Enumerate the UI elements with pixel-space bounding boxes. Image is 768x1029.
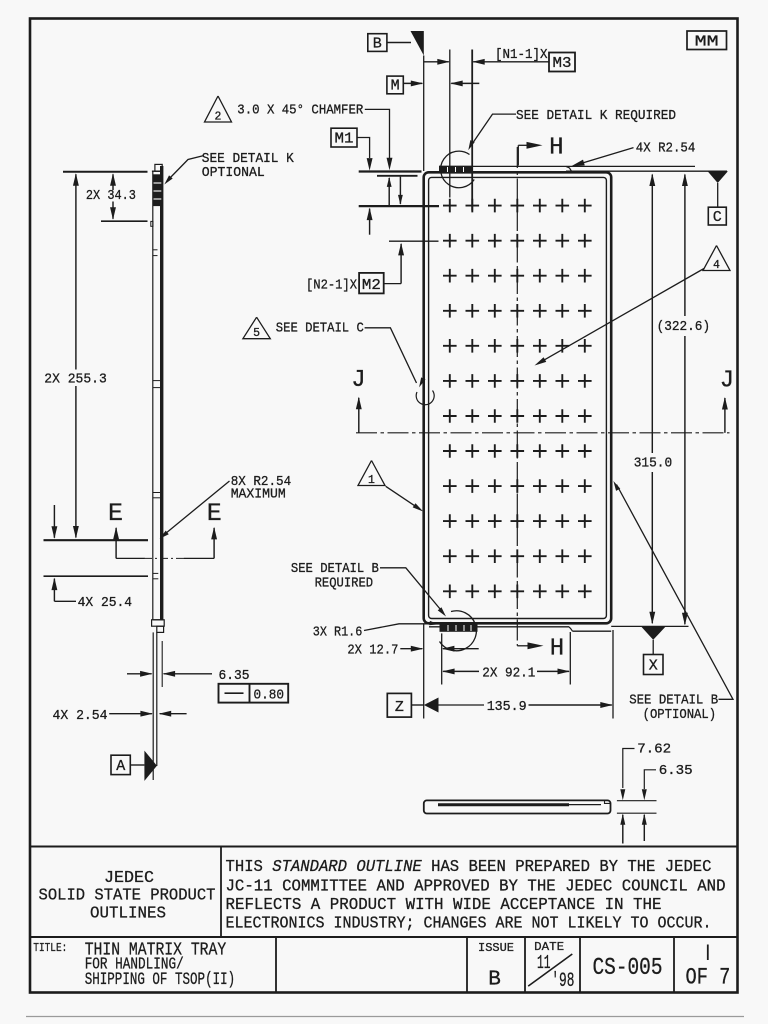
detail K circle [441,151,475,188]
units MM box [687,31,727,50]
section H bottom marker [517,645,528,647]
flag 1 leader [386,486,420,509]
side view right edge [160,166,163,620]
dim 2X 255.3 top arrow [75,174,77,369]
tray top rail step [566,166,572,171]
dim M1 box [331,128,357,147]
title block divider JEDEC cell [220,847,222,938]
straightness frame [219,684,289,703]
svg-text:H: H [549,135,563,162]
dim N1 pitch left arrow [424,61,449,63]
svg-text:M: M [391,77,400,94]
svg-text:135.9: 135.9 [487,699,527,715]
dim 6.35 edge lower arrow [643,815,645,841]
dim M1 lower arrow [369,209,371,235]
page bottom scan line [26,1016,744,1018]
see detail B optional leader [617,485,734,700]
svg-text:REQUIRED: REQUIRED [315,576,374,592]
dim 6.35 edge leader [644,770,656,789]
extension line side E level [44,539,149,541]
dim 4X 25.4 upper arrow [53,505,55,538]
svg-text:2X 255.3: 2X 255.3 [44,372,107,388]
dim 2X 12.7 right arrow [443,648,479,650]
dim 315.0 line lower [651,472,653,623]
edge view inner recess [438,803,569,806]
side view foot [152,620,165,626]
dim (322.6) line lower [684,336,686,624]
sheet number 1 [707,945,709,961]
svg-text:1: 1 [368,474,375,487]
extension line tray inner top edge [377,175,418,177]
svg-text:B: B [373,35,382,52]
title block divider title cell [275,937,277,993]
svg-text:(OPTIONAL): (OPTIONAL) [643,707,717,723]
datum X box [644,655,664,675]
section E-E centerline [144,557,184,559]
section J right arrow [724,398,726,433]
tray bottom edge extension to X datum [611,625,688,627]
svg-text:2X 12.7: 2X 12.7 [347,643,398,659]
svg-text:0.80: 0.80 [254,687,285,703]
svg-text:C: C [713,209,722,226]
witness line tray left edge (up) [423,56,425,172]
tray bottom rail edge [429,626,569,628]
svg-text:MM: MM [695,33,719,50]
datum X stem [652,640,654,655]
dim M2 inner up arrow [388,178,390,206]
dim 6.35 side right arrow [164,673,212,675]
svg-text:[N2-1]X: [N2-1]X [306,278,357,294]
extension line tray top edge left [359,170,422,172]
svg-text:JC-11 COMMITTEE AND APPROVED B: JC-11 COMMITTEE AND APPROVED BY THE JEDE… [226,877,726,896]
svg-text:3X R1.6: 3X R1.6 [313,625,363,641]
svg-text:M3: M3 [553,55,572,72]
svg-text:SEE DETAIL K REQUIRED: SEE DETAIL K REQUIRED [516,108,676,124]
dim 3X R1.6 leader [364,624,433,631]
svg-text:'98: '98 [551,970,574,993]
witness line pocket column 2 [471,50,473,211]
svg-text:B: B [488,969,501,992]
svg-text:SEE DETAIL C: SEE DETAIL C [276,321,364,337]
side view joint d [153,572,159,574]
dim M2 box [359,273,384,294]
dim 4X R2.54 leader [575,148,634,166]
svg-text:3.0 X 45° CHAMFER: 3.0 X 45° CHAMFER [237,103,363,119]
svg-text:11: 11 [537,952,551,974]
svg-text:2X 34.3: 2X 34.3 [86,188,136,204]
dim M right arrow [451,82,479,84]
see detail C leader [365,328,417,383]
datum A leader [130,764,144,766]
extension line pocket row 1 [359,205,439,207]
witness line pocket column 1 [449,50,451,198]
dim 135.9 right arrow [529,704,612,706]
side view left edge step [151,221,153,226]
dim M2 inner down arrow [399,177,401,204]
dim 8X R2.54 leader [163,481,230,536]
title block divider CS-005 cell [579,937,581,993]
flag 4 leader [538,269,705,364]
bottom-left tab (detail B) [440,624,477,631]
dim 2X 92.1 right arrow [537,670,569,672]
svg-text:OUTLINES: OUTLINES [90,904,166,923]
svg-text:6.35: 6.35 [219,668,250,684]
tray top rail edge [439,165,695,167]
tray bottom rail step [569,627,573,631]
svg-text:SOLID STATE PRODUCT: SOLID STATE PRODUCT [39,887,216,906]
svg-text:OF 7: OF 7 [686,965,731,991]
side view lower rail left line [152,632,154,780]
datum B flag triangle [411,31,424,56]
extension line side 34.3 [101,220,148,222]
svg-text:OPTIONAL: OPTIONAL [202,165,265,181]
see detail K optional leader [168,156,205,181]
dim 4X 2.54 left arrow [109,713,152,715]
side view joint a [153,249,158,251]
svg-text:REFLECTS A PRODUCT WITH WIDE A: REFLECTS A PRODUCT WITH WIDE ACCEPTANCE … [226,896,662,915]
tray top edge extension to C datum [566,170,727,172]
svg-text:H: H [550,636,564,663]
flag triangle 1 [358,461,385,486]
dim 2X 255.3 bottom arrow [75,386,77,538]
svg-text:THIS STANDARD OUTLINE HAS BEEN: THIS STANDARD OUTLINE HAS BEEN PREPARED … [226,858,712,877]
side view foot hook [157,626,164,632]
svg-text:A: A [116,758,125,775]
edge view extension top [617,800,657,802]
dim 2X 12.7 left arrow [400,648,422,650]
dim 4X 2.54 right arrow [160,713,187,715]
section J left arrow [358,398,360,433]
edge view extension bottom [617,812,657,814]
svg-text:M2: M2 [362,277,381,294]
svg-text:7.62: 7.62 [637,742,671,758]
title block divider issue cell [466,937,468,993]
dim M3 box [549,53,575,72]
datum A flag triangle [144,751,157,781]
svg-text:315.0: 315.0 [634,456,673,472]
datum C box [708,207,726,225]
svg-text:M1: M1 [335,131,354,148]
see detail B required leader [380,568,443,613]
svg-text:4X 2.54: 4X 2.54 [53,708,108,724]
side view joint b [153,380,160,382]
svg-text:J: J [720,367,734,394]
see detail K required leader [470,114,516,147]
title block middle rule [30,936,738,938]
svg-text:MAXIMUM: MAXIMUM [231,487,286,503]
extension line pocket row 2 [389,240,439,242]
dim 4X 25.4 lower arrow [53,579,55,602]
side view top tab [155,164,162,171]
datum M box [387,76,403,94]
side view joint c [153,492,160,494]
vertical centerline [516,147,518,646]
datum C flag triangle [708,171,728,183]
tray inner outline [429,177,607,618]
witness line 6.35 right [161,641,163,687]
datum Z box [387,693,411,717]
svg-text:J: J [351,367,365,394]
svg-text:2: 2 [215,111,222,124]
extension line side top [63,171,148,173]
svg-text:E: E [108,499,123,528]
datum Z flag arrow [424,698,439,713]
detail C arc [416,391,434,405]
tray outer outline [424,172,612,623]
datum A box [111,755,130,774]
section E right arrow [213,528,215,559]
datum X flag triangle [641,626,666,640]
title block divider sheet cell [673,937,675,993]
svg-text:2X 92.1: 2X 92.1 [482,666,535,682]
svg-text:X: X [649,658,658,675]
flag triangle 4 [703,246,730,271]
edge view outline [424,800,611,813]
datum Z leader [411,704,424,706]
dim M1 leader [357,138,370,159]
top-left chamfer tab (detail K) [440,166,472,172]
title block divider date cell [524,937,526,993]
svg-text:4X 25.4: 4X 25.4 [78,595,133,611]
svg-text:5: 5 [253,327,260,340]
title block top rule [30,846,738,848]
svg-text:(322.6): (322.6) [657,319,711,335]
section H top marker [517,145,519,165]
svg-text:JEDEC: JEDEC [104,869,154,888]
svg-text:SHIPPING OF TSOP(II): SHIPPING OF TSOP(II) [85,970,236,990]
flag triangle 5 [243,317,270,339]
svg-text:4: 4 [713,259,720,272]
witness line tray right edge (down) [612,630,614,719]
svg-text:Z: Z [395,699,404,716]
witness line tray left edge (down) [423,623,425,718]
dim 7.62 lower arrow [622,815,624,844]
pocket center grid (+ marks) [443,199,592,598]
dim N1 pitch right arrow [473,61,549,63]
chamfer flag triangle 2 [205,96,232,122]
side view detail K block [153,175,161,206]
dim 7.62 leader [623,749,635,789]
svg-text:TITLE:: TITLE: [33,941,67,955]
dim M left arrow [403,82,422,84]
svg-text:CS-005: CS-005 [593,955,663,982]
svg-text:ELECTRONICS INDUSTRY; CHANGES: ELECTRONICS INDUSTRY; CHANGES ARE NOT LI… [226,915,712,934]
detail B circle [440,611,477,651]
dim 135.9 line left [439,704,485,706]
datum C stem [717,183,719,207]
svg-text:ISSUE: ISSUE [478,941,514,955]
svg-text:E: E [207,499,222,528]
date slash [528,954,572,986]
dim M2 lower arrow [400,244,402,284]
section E left arrow [115,528,117,559]
side view top edge [152,170,163,172]
dim 6.35 side left arrow [127,673,152,675]
svg-text:4X R2.54: 4X R2.54 [636,141,696,157]
tray bottom rail right segment [573,630,612,632]
side view lower rail right line [156,632,158,766]
dim 2X 34.3 top arrow [112,174,114,190]
edge view right step [605,800,611,803]
svg-text:6.35: 6.35 [659,763,693,779]
datum B leader [387,42,411,44]
datum B box [368,34,387,52]
side view left edge [152,171,154,620]
dim 2X 34.3 bottom arrow [112,202,114,219]
chamfer note leader [365,109,390,158]
horizontal centerline J-J [356,432,730,434]
dim (322.6) line upper [684,175,686,317]
side view bottom edge [153,619,164,621]
witness line detail B tab [441,633,443,684]
extension line side 25.4 level [44,575,149,577]
witness line 92.1 right [569,632,571,685]
dim 2X 92.1 left arrow [443,670,479,672]
svg-text:[N1-1]X: [N1-1]X [495,47,548,63]
dim 315.0 line upper [651,175,653,454]
